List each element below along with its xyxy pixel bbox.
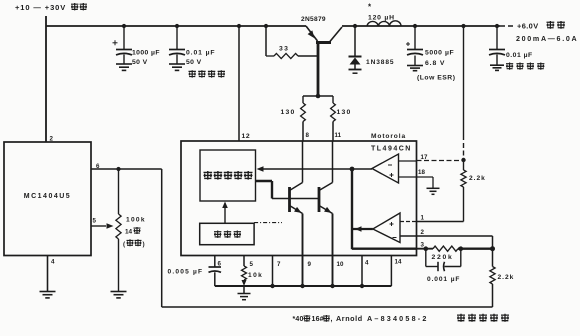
svg-text:100k: 100k <box>126 217 146 224</box>
svg-text:8: 8 <box>306 132 310 139</box>
svg-text:2N5879: 2N5879 <box>301 16 326 23</box>
svg-text:10: 10 <box>337 261 344 268</box>
svg-text:+6.0V: +6.0V <box>517 22 539 31</box>
svg-text:12: 12 <box>242 133 251 140</box>
svg-text:14: 14 <box>395 259 402 266</box>
svg-text:0.01 µF: 0.01 µF <box>506 52 533 59</box>
svg-text:130: 130 <box>337 109 352 116</box>
svg-text:9: 9 <box>308 261 312 268</box>
svg-text:16#: 16# <box>312 316 324 323</box>
svg-text:+10 — +30V: +10 — +30V <box>15 3 66 12</box>
svg-text:50 V: 50 V <box>186 59 202 66</box>
svg-text:50 V: 50 V <box>132 59 148 66</box>
svg-text:120 µH: 120 µH <box>368 15 395 22</box>
svg-text:1000 µF: 1000 µF <box>132 50 160 57</box>
svg-text:(Low ESR): (Low ESR) <box>417 75 455 82</box>
svg-text:2: 2 <box>50 136 54 143</box>
svg-text:6.8 V: 6.8 V <box>425 60 445 67</box>
svg-text:0.005 µF: 0.005 µF <box>168 269 204 276</box>
svg-text:2: 2 <box>421 229 425 236</box>
svg-text:A–834058-2: A–834058-2 <box>367 314 429 323</box>
svg-text:1N3885: 1N3885 <box>366 59 395 66</box>
svg-text:33: 33 <box>279 46 289 53</box>
svg-text:TL494CN: TL494CN <box>371 146 412 153</box>
svg-text:5000 µF: 5000 µF <box>425 50 454 57</box>
svg-text:6: 6 <box>96 163 100 170</box>
svg-text:4: 4 <box>365 260 369 267</box>
svg-text:2.2k: 2.2k <box>498 274 515 281</box>
svg-text:18: 18 <box>418 169 425 176</box>
svg-text:): ) <box>143 241 145 248</box>
svg-text:0.001 µF: 0.001 µF <box>427 276 460 283</box>
svg-text:Motorola: Motorola <box>371 133 406 140</box>
svg-text:Arnold: Arnold <box>336 314 363 323</box>
svg-text:5: 5 <box>93 218 97 225</box>
svg-text:MC1404U5: MC1404U5 <box>24 193 71 200</box>
svg-text:6: 6 <box>218 261 222 268</box>
svg-text:2.2k: 2.2k <box>469 175 486 182</box>
svg-text:1: 1 <box>421 215 425 222</box>
svg-text:200mA—6.0A: 200mA—6.0A <box>516 35 578 43</box>
svg-text:130: 130 <box>281 109 296 116</box>
svg-text:14: 14 <box>125 229 133 236</box>
svg-text:7: 7 <box>277 261 281 268</box>
svg-text:220k: 220k <box>432 254 454 261</box>
svg-text:4: 4 <box>51 259 55 266</box>
svg-text:0.01 µF: 0.01 µF <box>186 50 216 57</box>
svg-text:11: 11 <box>335 132 342 139</box>
svg-text:5: 5 <box>250 261 254 268</box>
svg-text:*40: *40 <box>293 316 304 323</box>
svg-text:10k: 10k <box>248 272 263 279</box>
svg-text:,: , <box>331 316 333 323</box>
